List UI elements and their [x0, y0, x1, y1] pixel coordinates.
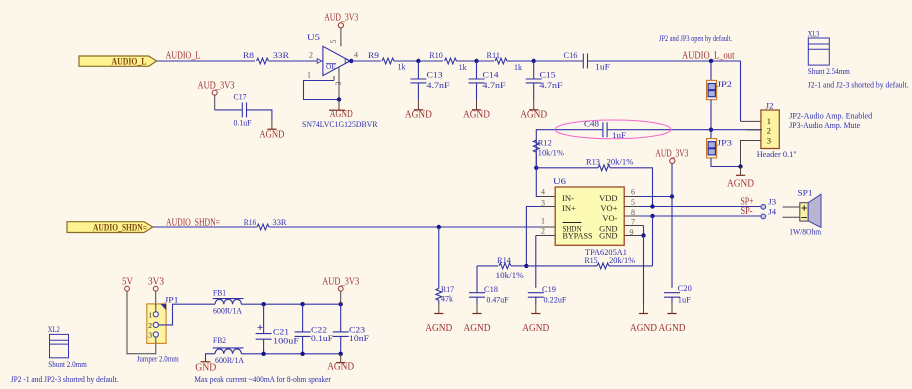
svg-text:100uF: 100uF [273, 336, 299, 346]
capacitor C48 1uF [603, 122, 607, 137]
svg-text:GND: GND [599, 230, 617, 240]
svg-text:0.47uF: 0.47uF [487, 294, 509, 304]
pin stub U6 pin 9 (GND) [624, 235, 643, 237]
connector J3 [761, 204, 766, 209]
svg-text:JP3: JP3 [717, 138, 732, 148]
svg-text:R13: R13 [586, 156, 600, 166]
junction VDD node [670, 194, 674, 198]
jumper JP2 [707, 80, 717, 99]
svg-text:5: 5 [631, 198, 635, 207]
capacitor C14 4.7nF [476, 61, 478, 79]
pin stub U6 pin 8 (VO-) [624, 215, 640, 217]
capacitor C18 0.47uF [476, 266, 478, 293]
wire C17 to AGND [247, 110, 272, 120]
wire C14 to R11 [477, 60, 495, 62]
wire R15 to riser [609, 265, 653, 267]
junction C13 tap [416, 59, 420, 63]
junction R17 tap [437, 225, 441, 229]
svg-text:2: 2 [767, 126, 771, 136]
svg-text:C16: C16 [564, 50, 578, 60]
svg-text:IN-: IN- [562, 193, 574, 203]
wire JP2 to JP3 [710, 100, 712, 139]
wire 3V3 to JP1 pin 1 [155, 291, 157, 305]
resistor R13 20k/1% [536, 167, 598, 169]
wire C13 to R10 [418, 60, 443, 62]
resistor R17 47k [438, 227, 440, 288]
junction VO+/R13 [650, 204, 654, 208]
junction C22 top [300, 302, 304, 306]
wire C15 to C16 [534, 60, 584, 62]
svg-text:2: 2 [148, 321, 152, 330]
svg-text:OE: OE [326, 63, 336, 71]
pin stub U6 pin 3 (IN+) [540, 206, 555, 208]
capacitor C22 0.1uF [302, 304, 304, 332]
svg-text:U5: U5 [307, 32, 320, 42]
svg-text:4: 4 [541, 188, 545, 197]
svg-text:10k/1%: 10k/1% [496, 270, 524, 280]
ground AGND (C13) [417, 100, 419, 110]
wire port AUDIO_L to R8 [157, 60, 255, 62]
junction C14 tap [474, 59, 478, 63]
capacitor C19 0.22uF [528, 293, 544, 298]
wire AUD_3V3 down to C20 [671, 164, 673, 288]
svg-text:R12: R12 [538, 138, 552, 148]
ground GND (FB2) [201, 361, 211, 363]
svg-text:GND: GND [195, 362, 216, 373]
wire JP1 pin 2 to FB1 [158, 304, 215, 325]
wire R12 node to U6 pin 4 [536, 153, 540, 196]
svg-text:4.7nF: 4.7nF [483, 80, 506, 90]
svg-text:FB2: FB2 [213, 335, 226, 345]
svg-text:Max peak current ~400mA for 8-: Max peak current ~400mA for 8-ohm speake… [194, 374, 331, 384]
svg-text:R11: R11 [487, 50, 501, 60]
header J2 [761, 110, 779, 149]
svg-text:47k: 47k [441, 294, 454, 304]
junction C48 line at JP3 [709, 128, 713, 132]
wire BYPASS down to C19 [535, 236, 537, 288]
svg-text:1: 1 [541, 217, 545, 226]
junction C15 tap [532, 59, 536, 63]
svg-text:10k/1%: 10k/1% [538, 148, 564, 158]
svg-text:C20: C20 [678, 283, 692, 293]
highlight ellipse around C48 [555, 120, 671, 139]
svg-text:AGND: AGND [659, 323, 686, 334]
svg-text:AUDIO_L: AUDIO_L [166, 50, 201, 61]
svg-text:Header 0.1": Header 0.1" [757, 149, 797, 159]
svg-text:AUDIO_SHDN=: AUDIO_SHDN= [93, 224, 147, 234]
pin stub U6 pin 1 (SHDN) [540, 226, 555, 228]
junction C23 bottom / AGND [339, 352, 343, 356]
wire R9 to C13 node [394, 60, 418, 62]
svg-text:FB1: FB1 [213, 287, 226, 297]
svg-text:1uF: 1uF [678, 294, 691, 304]
ground AGND (C20) [671, 304, 673, 314]
ground AGND (C18) [476, 304, 478, 314]
port AUDIO_L [79, 56, 157, 66]
wire FB2 left to GND [206, 354, 216, 362]
junction C22 bottom [300, 352, 304, 356]
capacitor C13 4.7nF [417, 61, 419, 79]
wire R17 to AGND [438, 301, 440, 304]
svg-text:AGND: AGND [425, 323, 452, 334]
svg-text:R10: R10 [429, 50, 443, 60]
resistor R9 1k [382, 58, 394, 64]
junction C21 top [261, 302, 265, 306]
op-amp U5 buffer triangle [323, 46, 350, 75]
svg-text:XL2: XL2 [48, 324, 60, 334]
svg-text:AGND: AGND [464, 323, 491, 334]
svg-text:4.7nF: 4.7nF [427, 80, 450, 90]
svg-text:3V3: 3V3 [148, 276, 164, 287]
junction VO-/R15 [650, 214, 654, 218]
svg-text:R16: R16 [244, 217, 257, 227]
resistor R16 33R [257, 224, 269, 230]
resistor R10 1k [445, 58, 457, 64]
svg-text:1: 1 [148, 310, 152, 319]
svg-text:600R/1A: 600R/1A [215, 355, 245, 365]
pin 3 GND stub (U5) [338, 67, 340, 100]
resistor R14 10k/1% [477, 265, 498, 267]
svg-text:5: 5 [329, 40, 338, 44]
svg-text:J2-1 and J2-3 shorted by defau: J2-1 and J2-3 shorted by default. [808, 79, 909, 89]
wire FB2 to bottom rail [241, 353, 340, 355]
svg-text:1uF: 1uF [595, 62, 610, 72]
svg-text:XL3: XL3 [808, 29, 820, 39]
ground AGND (J2) [740, 167, 742, 176]
wire GND pins join [643, 226, 645, 236]
svg-text:J4: J4 [768, 207, 777, 217]
pin stub J2 pin 2 [747, 129, 761, 131]
svg-text:C19: C19 [542, 284, 556, 294]
svg-text:AUD_3V3: AUD_3V3 [324, 12, 358, 23]
resistor R12 10k/1% [533, 140, 539, 152]
svg-text:J2: J2 [766, 100, 774, 110]
junction U5 ground node [337, 97, 341, 101]
svg-text:VO-: VO- [602, 213, 617, 223]
wire U6 GND down to AGND [643, 236, 645, 304]
svg-text:20k/1%: 20k/1% [609, 255, 635, 265]
svg-text:0.1uF: 0.1uF [311, 333, 333, 343]
junction U5 output [349, 59, 353, 63]
svg-text:IN+: IN+ [562, 203, 576, 213]
wire R8 to U5 pin 2 [269, 60, 318, 62]
capacitor C20 1uF [664, 293, 680, 298]
svg-text:3: 3 [767, 135, 771, 145]
speaker SP1 [783, 207, 800, 217]
wire R10 to C14 node [457, 60, 477, 62]
wire J2 pin2 net (C48 line) [536, 130, 603, 168]
svg-text:J3: J3 [768, 197, 776, 207]
wire FB1 to AUD_3V3 rail [241, 303, 340, 305]
svg-text:0.1uF: 0.1uF [234, 118, 252, 128]
wire JP3 to ground node / J2 pin 3 [711, 158, 741, 167]
wire C16 to J2 pin 1 (AUDIO_L_out) [588, 61, 741, 121]
svg-text:1: 1 [307, 71, 311, 80]
svg-text:33R: 33R [273, 50, 289, 60]
amplifier U6 TPA6205A1 [555, 187, 624, 245]
svg-text:JP2 -1 and JP2-3 shorted by de: JP2 -1 and JP2-3 shorted by default. [11, 374, 119, 384]
svg-text:BYPASS: BYPASS [563, 230, 593, 240]
junction R12/R13/IN- node [534, 166, 538, 170]
wire AUD_3V3 to C17 [214, 95, 216, 110]
svg-text:4: 4 [354, 51, 358, 60]
svg-text:1k: 1k [459, 62, 468, 72]
wire VDD to AUD_3V3 [640, 196, 672, 198]
svg-text:C15: C15 [540, 70, 556, 80]
port AUDIO_SHDN= [67, 222, 153, 233]
pin stubs JP1 internal [155, 304, 157, 344]
ground AGND (R17) [438, 304, 440, 314]
svg-text:5V: 5V [122, 276, 134, 287]
wire R16 to U6 pin 1 [269, 226, 540, 228]
jumper JP1 [147, 304, 166, 344]
wire IN+ to R14/R15 node [526, 207, 540, 266]
svg-text:SN74LVC1G125DBVR: SN74LVC1G125DBVR [302, 119, 378, 129]
junction IN+/R14/R15 [524, 264, 528, 268]
svg-text:JP2 and JP3 open by default.: JP2 and JP3 open by default. [659, 33, 732, 43]
ground AGND (C15) [533, 100, 535, 110]
ground AGND (U6) [643, 304, 645, 314]
capacitor C16 1uF [583, 54, 587, 69]
wire R14 to junction [511, 265, 526, 267]
capacitor C21 100uF polarized [263, 304, 265, 333]
wire R11 to C15 node [507, 60, 534, 62]
svg-text:1uF: 1uF [612, 130, 626, 140]
ferrite bead FB2 600R/1A [215, 349, 241, 354]
svg-text:VDD: VDD [599, 193, 617, 203]
junction C21 bottom [261, 352, 265, 356]
svg-text:AGND: AGND [259, 130, 284, 141]
svg-text:1k: 1k [398, 62, 407, 72]
svg-text:2: 2 [309, 51, 313, 60]
wire junction to JP2 [710, 61, 712, 80]
ground AGND (C19) [535, 304, 537, 314]
svg-text:C17: C17 [234, 91, 247, 101]
svg-text:JP2: JP2 [717, 79, 732, 89]
svg-text:VO+: VO+ [600, 203, 617, 213]
junction JP2 tap [709, 59, 713, 63]
wire VO+ to J3 [640, 206, 761, 208]
capacitor C23 10nF [340, 304, 342, 332]
svg-text:AGND: AGND [727, 178, 754, 189]
svg-text:JP2-Audio Amp. Enabled: JP2-Audio Amp. Enabled [789, 110, 873, 120]
svg-text:AUDIO_L_out: AUDIO_L_out [682, 50, 735, 61]
jumper JP3 [707, 139, 717, 158]
connector J4 [761, 214, 766, 219]
ground AGND (C14) [476, 100, 478, 110]
pin stub U6 pin 2 (BYPASS) [536, 235, 555, 237]
svg-text:C18: C18 [484, 284, 498, 294]
svg-text:C48: C48 [584, 119, 599, 129]
wire VO- to J4 [640, 215, 761, 217]
svg-text:3: 3 [148, 330, 152, 339]
wire port to R16 [153, 226, 257, 228]
svg-text:R15: R15 [585, 255, 598, 265]
svg-text:10nF: 10nF [349, 333, 369, 343]
ground AGND (rail) [340, 354, 342, 363]
svg-text:SP-: SP- [741, 206, 753, 217]
junction J2 pin 3 ground node [738, 164, 742, 168]
svg-text:AGND: AGND [522, 323, 549, 334]
ground AGND (U5) [338, 100, 340, 111]
resistor R11 1k [495, 58, 507, 64]
wire R13 to VO+ [610, 168, 653, 207]
svg-text:U6: U6 [553, 176, 566, 186]
wire R15 riser [652, 216, 654, 266]
svg-text:2: 2 [541, 227, 545, 236]
svg-text:AUD_3V3: AUD_3V3 [322, 276, 359, 287]
svg-text:Shunt 2.54mm: Shunt 2.54mm [808, 66, 850, 76]
svg-text:JP1: JP1 [165, 295, 179, 305]
svg-text:Shunt 2.0mm: Shunt 2.0mm [48, 359, 87, 369]
svg-text:20k/1%: 20k/1% [607, 157, 634, 167]
svg-text:4.7nF: 4.7nF [540, 80, 563, 90]
wire U5 output to R9 [350, 60, 381, 62]
svg-text:AGND: AGND [520, 110, 547, 121]
junction AUD_3V3/C23 [339, 302, 343, 306]
pin stub U6 pin 7 (GND) [624, 225, 643, 227]
svg-text:1W/8Ohm: 1W/8Ohm [789, 226, 821, 236]
wire 5V to JP1 pin 3 [127, 291, 156, 354]
resistor R15 20k/1% [526, 265, 597, 267]
pin stub U6 pin 6 (VDD) [624, 196, 640, 198]
svg-text:R9: R9 [368, 50, 379, 60]
svg-text:R8: R8 [243, 50, 254, 60]
svg-text:AGND: AGND [630, 323, 657, 334]
svg-text:Jumper 2.0mm: Jumper 2.0mm [137, 354, 179, 364]
svg-text:6: 6 [631, 188, 635, 197]
svg-text:C14: C14 [483, 70, 500, 80]
svg-text:R17: R17 [441, 284, 454, 294]
svg-text:AGND: AGND [463, 110, 490, 121]
resistor R8 33R [257, 58, 269, 64]
svg-text:0.22uF: 0.22uF [544, 294, 567, 304]
pin stub U6 pin 5 (VO+) [624, 206, 640, 208]
svg-text:AGND: AGND [327, 362, 354, 373]
svg-text:600R/1A: 600R/1A [213, 305, 243, 315]
svg-text:AUD_3V3: AUD_3V3 [198, 80, 235, 91]
svg-text:1k: 1k [514, 62, 523, 72]
svg-text:AGND: AGND [405, 110, 432, 121]
svg-text:SP1: SP1 [798, 187, 813, 197]
capacitor C17 0.1uF [242, 102, 246, 117]
svg-text:JP3-Audio Amp. Mute: JP3-Audio Amp. Mute [789, 120, 860, 130]
svg-text:C13: C13 [427, 70, 443, 80]
svg-text:AUDIO_L: AUDIO_L [112, 58, 147, 68]
ground AGND (C17) [271, 120, 273, 130]
svg-text:33R: 33R [273, 217, 287, 227]
capacitor C15 4.7nF [533, 61, 535, 79]
junction GND pins [641, 233, 645, 237]
ferrite bead FB1 600R/1A [215, 299, 241, 304]
svg-text:R14: R14 [497, 255, 512, 265]
